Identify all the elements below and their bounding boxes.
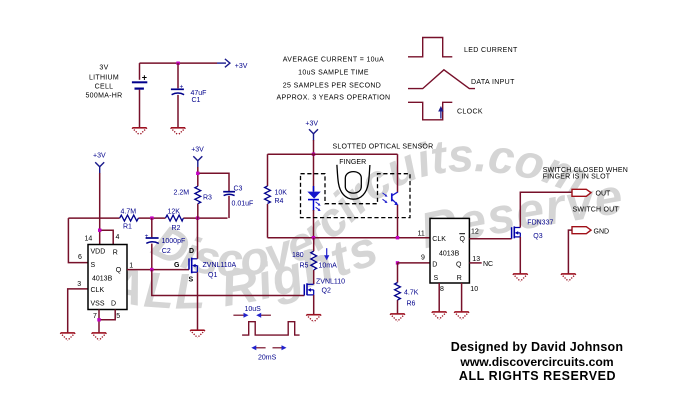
svg-text:VDD: VDD: [91, 248, 106, 255]
ground (GND port): [561, 274, 576, 281]
port OUT: [572, 189, 611, 197]
svg-text:C3: C3: [234, 186, 243, 193]
capacitor C2 1000pF: [145, 218, 186, 270]
svg-text:9: 9: [421, 255, 425, 262]
svg-text:SLOTTED OPTICAL SENSOR: SLOTTED OPTICAL SENSOR: [333, 143, 434, 150]
node junction pin1/C2/gate: [150, 268, 153, 271]
svg-text:14: 14: [85, 236, 93, 243]
svg-text:G: G: [174, 262, 180, 269]
svg-text:+: +: [142, 73, 147, 83]
svg-text:Q2: Q2: [322, 287, 331, 294]
svg-text:13: 13: [472, 256, 480, 263]
svg-text:APPROX. 3 YEARS OPERATION: APPROX. 3 YEARS OPERATION: [277, 95, 391, 102]
battery label text: [85, 65, 122, 100]
node junction D-pin branch: [396, 261, 399, 264]
battery B1 3V lithium cell: [132, 63, 147, 128]
ground (U1 VSS): [92, 333, 107, 340]
svg-text:1000pF: 1000pF: [162, 238, 186, 245]
wire gate node down and across to Q2 gate: [152, 270, 304, 296]
phototransistor Q4: [392, 192, 398, 205]
svg-text:AVERAGE CURRENT = 10uA: AVERAGE CURRENT = 10uA: [283, 57, 384, 64]
ground (Q3 source): [513, 274, 528, 281]
svg-text:GND: GND: [594, 228, 610, 235]
svg-text:VSS: VSS: [91, 301, 105, 308]
node junction R2/R3/C3/Q1 drain: [196, 216, 199, 219]
node junction phototransistor/bottom wire: [396, 236, 399, 239]
capacitor C3 0.01uF: [223, 186, 253, 208]
node junction +3V/R3/C3: [196, 172, 199, 175]
svg-text:11: 11: [418, 230, 425, 237]
LED D1: [307, 192, 320, 200]
port GND: [572, 227, 609, 236]
node junction pin14/pin4: [98, 229, 101, 232]
svg-text:47uF: 47uF: [191, 90, 207, 97]
credit text: [451, 340, 623, 383]
wire Q1 drain up to node: [197, 218, 199, 259]
svg-text:0.01uF: 0.01uF: [232, 201, 254, 208]
svg-text:CELL: CELL: [95, 84, 114, 91]
20mS dimension arrows: [251, 345, 286, 361]
pin numbers U2: [418, 228, 481, 292]
power +3V (chip U1 VDD): [93, 152, 106, 173]
svg-text:LITHIUM: LITHIUM: [89, 75, 119, 82]
LED emission arrows: [316, 202, 321, 211]
svg-text:2.2M: 2.2M: [174, 189, 190, 196]
svg-text:www.discovercircuits.com: www.discovercircuits.com: [459, 355, 613, 369]
wire VSS pin7/pin5 to ground: [99, 310, 115, 333]
resistor R5 180 branch wire: [313, 238, 315, 284]
svg-text:NC: NC: [483, 261, 493, 268]
wire top rail battery to +3V arrow: [140, 62, 218, 64]
svg-text:180: 180: [292, 252, 304, 259]
pulse waveform: [242, 322, 300, 335]
wire +3V down to pin14/pin4: [100, 173, 114, 245]
label switch closed when finger is in slot: [543, 167, 628, 180]
svg-text:R6: R6: [407, 300, 416, 307]
node junction battery rail / C1: [176, 62, 179, 65]
ground (U2 pin8): [432, 312, 447, 319]
svg-text:20mS: 20mS: [258, 354, 277, 361]
svg-text:+: +: [180, 83, 184, 90]
svg-text:C1: C1: [192, 97, 201, 104]
note text block: [277, 57, 391, 102]
svg-text:FDN337: FDN337: [527, 220, 553, 227]
transistor Q3 FDN337: [512, 220, 554, 240]
svg-text:+: +: [145, 233, 149, 240]
wire Q2 source to ground: [313, 295, 315, 315]
svg-text:R3: R3: [203, 194, 212, 201]
node junction LED bottom: [312, 236, 315, 239]
wire Q1 source down to ground: [197, 272, 199, 330]
wire +3V to R3/C3 loop: [198, 167, 229, 218]
ground (Q2 source): [306, 315, 321, 322]
wire pin10 to ground: [461, 283, 463, 312]
svg-text:+3V: +3V: [305, 120, 318, 127]
capacitor C1 47uF: [171, 63, 207, 128]
svg-text:SWITCH OUT: SWITCH OUT: [573, 206, 620, 213]
power +3V (sensor): [305, 120, 318, 140]
finger drawing: [337, 165, 370, 199]
phototransistor light arrows: [383, 193, 388, 203]
svg-text:D: D: [189, 248, 194, 255]
resistor R6 4.7K branch: [395, 263, 419, 314]
transistor Q2 ZVNL110: [304, 278, 345, 295]
ground (Q1 source): [190, 330, 205, 337]
waveform data input: [408, 70, 515, 89]
wire CLK pin of U1 to ground: [68, 289, 88, 333]
sensor dashed outline: [301, 174, 411, 218]
op-amp U2 4013B flip-flop body: [430, 218, 469, 283]
svg-text:LED CURRENT: LED CURRENT: [464, 47, 518, 54]
wire S pin of U1: [68, 218, 88, 263]
resistor R5 180: [292, 251, 317, 270]
svg-text:CLK: CLK: [432, 236, 446, 243]
transistor Q1 ZVNL110A: [174, 248, 237, 283]
watermark line 2: [0, 0, 628, 320]
svg-text:Q3: Q3: [533, 233, 542, 240]
svg-text:R1: R1: [123, 223, 132, 230]
svg-text:4013B: 4013B: [439, 251, 460, 258]
svg-text:S: S: [189, 276, 194, 283]
svg-text:ZVNL110: ZVNL110: [316, 278, 345, 285]
resistor R2 12K: [166, 209, 184, 233]
svg-text:Q: Q: [460, 236, 466, 243]
svg-text:500MA-HR: 500MA-HR: [85, 93, 122, 100]
svg-text:10uS: 10uS: [245, 306, 262, 313]
svg-text:1: 1: [129, 262, 133, 269]
wire D pin of U2: [398, 262, 431, 264]
svg-text:Q: Q: [456, 262, 462, 269]
svg-text:6: 6: [78, 254, 82, 261]
svg-text:7: 7: [93, 313, 97, 320]
wire sensor box top: [268, 153, 398, 155]
svg-text:10mA: 10mA: [319, 262, 338, 269]
svg-text:DATA INPUT: DATA INPUT: [471, 79, 515, 86]
svg-text:12: 12: [471, 228, 479, 235]
power +3V arrow (top rail, horizontal): [217, 59, 248, 70]
svg-text:25 SAMPLES PER SECOND: 25 SAMPLES PER SECOND: [283, 83, 381, 90]
node junction pin7/pin5: [97, 318, 100, 321]
waveform clock: [408, 102, 483, 120]
svg-text:4.7M: 4.7M: [121, 209, 137, 216]
ground (R6): [390, 314, 405, 321]
svg-text:R5: R5: [300, 263, 309, 270]
svg-text:+3V: +3V: [235, 63, 248, 70]
current arrow 10mA: [319, 248, 338, 269]
resistor R3 2.2M: [174, 186, 213, 204]
wire sensor box left / R4 branch: [267, 154, 269, 238]
svg-text:R4: R4: [275, 198, 284, 205]
svg-text:C2: C2: [162, 248, 171, 255]
svg-text:FINGER: FINGER: [339, 159, 366, 166]
svg-text:OUT: OUT: [596, 191, 612, 198]
wire pin12 to Q3 gate: [469, 238, 511, 240]
svg-text:S: S: [434, 275, 439, 282]
ground (C1): [171, 128, 186, 135]
svg-text:ALL RIGHTS RESERVED: ALL RIGHTS RESERVED: [459, 369, 616, 383]
wire sensor box right / phototransistor branch: [397, 154, 399, 238]
svg-text:4: 4: [116, 234, 120, 241]
svg-text:10uS SAMPLE TIME: 10uS SAMPLE TIME: [298, 70, 369, 77]
svg-text:5: 5: [116, 313, 120, 320]
wire Q3 drain up and to OUT: [520, 192, 572, 227]
svg-text:4013B: 4013B: [92, 276, 113, 283]
svg-text:8: 8: [440, 286, 444, 293]
ground (battery): [132, 128, 147, 135]
pulse timing annotation: [233, 306, 271, 318]
svg-text:D: D: [432, 262, 437, 269]
svg-text:12K: 12K: [168, 209, 181, 216]
resistor R1 4.7M: [120, 209, 139, 231]
svg-text:CLOCK: CLOCK: [457, 109, 483, 116]
node junction sensor top: [312, 153, 315, 156]
pin numbers U1: [77, 234, 133, 320]
svg-text:FINGER IS IN SLOT: FINGER IS IN SLOT: [543, 173, 611, 180]
waveform LED current: [408, 38, 518, 57]
svg-text:Q: Q: [116, 267, 122, 274]
wire GND port to ground: [568, 230, 572, 274]
svg-text:R: R: [457, 275, 462, 282]
power +3V (R3 top): [191, 146, 204, 167]
LED D1 branch wire: [313, 154, 315, 238]
svg-text:CLK: CLK: [91, 287, 105, 294]
wire +3V down to sensor box: [313, 140, 315, 154]
svg-text:10K: 10K: [275, 190, 288, 197]
resistor R4 10K: [265, 186, 288, 205]
wire sensor box bottom to U2 CLK: [268, 237, 431, 239]
svg-text:3: 3: [77, 281, 81, 288]
wire pin8 to ground: [438, 283, 440, 312]
node junction R1/R2/C2: [150, 216, 153, 219]
svg-text:Designed by David Johnson: Designed by David Johnson: [451, 340, 623, 354]
wire R1 row: [68, 217, 227, 219]
wire Q output pin1 to Q1 gate: [127, 269, 189, 271]
svg-text:S: S: [91, 262, 96, 269]
svg-text:R: R: [113, 249, 118, 256]
ground (U1 CLK): [60, 333, 75, 340]
svg-text:D: D: [111, 301, 116, 308]
op-amp U1 4013B flip-flop body: [88, 245, 127, 310]
wire pin13 stub: [469, 262, 481, 264]
svg-text:R2: R2: [172, 225, 181, 232]
wire Q3 source to ground: [519, 237, 521, 274]
svg-text:+3V: +3V: [93, 152, 106, 159]
svg-text:+3V: +3V: [191, 146, 204, 153]
svg-text:ZVNL110A: ZVNL110A: [203, 262, 237, 269]
svg-text:10: 10: [470, 286, 478, 293]
svg-text:3V: 3V: [99, 65, 108, 72]
svg-text:4.7K: 4.7K: [404, 289, 419, 296]
svg-text:Q1: Q1: [208, 272, 217, 279]
ground (U2 pin10): [454, 312, 469, 319]
